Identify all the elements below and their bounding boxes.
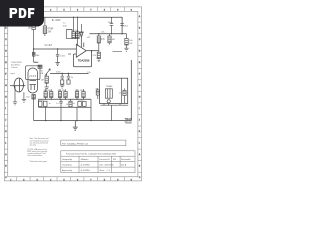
svg-text:1u: 1u	[63, 23, 66, 25]
resistor R13	[64, 89, 67, 99]
capacitor C3 electrolytic	[120, 24, 124, 26]
PDF badge	[0, 0, 44, 27]
resistor R12	[58, 89, 61, 99]
ground GND6	[13, 102, 17, 105]
svg-text:File: TubeAmp_PP2007.sch: File: TubeAmp_PP2007.sch	[62, 142, 89, 145]
svg-text:H: H	[139, 97, 141, 99]
transformer T1 windings	[105, 79, 121, 104]
decorative frame	[4, 7, 141, 181]
svg-text:Approved by: Approved by	[62, 169, 72, 172]
svg-text:Document N: Document N	[100, 158, 111, 161]
svg-text:I: I	[139, 108, 140, 110]
potentiometer VR1	[45, 69, 51, 90]
svg-text:Designed by: Designed by	[62, 159, 72, 161]
svg-text:+C: +C	[87, 37, 90, 39]
svg-text:H: H	[5, 97, 7, 99]
ground GND5	[97, 58, 101, 62]
svg-text:4: 4	[50, 179, 51, 181]
svg-text:K: K	[5, 131, 7, 133]
svg-text:L: L	[139, 143, 140, 145]
svg-text:R91: R91	[113, 159, 116, 161]
junction dots ground bus	[45, 120, 92, 121]
transformer T1 box	[100, 78, 128, 103]
svg-text:68k: 68k	[36, 55, 40, 57]
junction dots rail5	[45, 99, 84, 100]
svg-text:Control: Control	[11, 66, 18, 69]
arrow down symbol	[80, 24, 84, 37]
ground GND main	[73, 121, 78, 131]
capacitor C9	[59, 99, 62, 107]
svg-text:B: B	[139, 28, 141, 30]
svg-text:1 / 1: 1 / 1	[107, 170, 111, 172]
resistor R11	[50, 89, 53, 99]
resistor R2	[72, 17, 75, 38]
notes paragraph 2	[27, 148, 47, 157]
svg-text:0: 0	[131, 10, 132, 12]
capacitor C6	[60, 74, 64, 89]
resistor R8a grid	[32, 52, 35, 56]
svg-text:Revision A1: Revision A1	[121, 158, 131, 161]
svg-text:v1.0 B7/8/6: v1.0 B7/8/6	[81, 170, 90, 172]
title block file row	[61, 140, 126, 146]
wire rail5	[39, 98, 92, 100]
resistor R17	[96, 89, 99, 100]
svg-text:I: I	[5, 108, 6, 110]
resistor R6 input top	[32, 17, 35, 49]
svg-text:TRIAD: TRIAD	[106, 85, 113, 88]
wire input rail3	[34, 48, 77, 50]
svg-text:0: 0	[131, 179, 132, 181]
svg-text:Input: Input	[10, 72, 15, 75]
svg-text:22k: 22k	[101, 32, 105, 34]
capacitor C8 box	[39, 101, 48, 106]
enclosure box tube top	[26, 66, 41, 80]
resistor R3	[97, 34, 100, 51]
svg-text:100u: 100u	[123, 26, 129, 28]
svg-text:C2 4k7: C2 4k7	[45, 44, 53, 47]
resistor R18 zobel	[123, 89, 126, 104]
svg-text:5: 5	[64, 179, 65, 181]
capacitor C5 to ground	[56, 49, 59, 63]
svg-text:2W: 2W	[47, 30, 51, 33]
svg-text:12k: 12k	[87, 72, 91, 74]
svg-text:7: 7	[90, 179, 91, 181]
svg-text:TDA2030: TDA2030	[78, 58, 90, 62]
title block table	[61, 151, 135, 173]
wire op-amp output	[86, 50, 99, 52]
svg-text:J: J	[139, 120, 140, 122]
svg-text:Checked by: Checked by	[62, 164, 72, 166]
svg-text:G: G	[139, 85, 141, 87]
svg-text:100u: 100u	[108, 22, 114, 24]
svg-text:1M: 1M	[68, 54, 71, 56]
wire transformer drops	[104, 103, 120, 121]
resistor R4	[125, 34, 128, 49]
svg-text:1u 1u: 1u 1u	[78, 100, 83, 102]
resistor R8 plate	[38, 65, 42, 68]
svg-text:B: B	[5, 28, 7, 30]
svg-text:8: 8	[104, 179, 105, 181]
svg-text:1k: 1k	[71, 77, 74, 79]
svg-text:A: A	[139, 15, 141, 18]
svg-text:L: L	[5, 143, 6, 145]
wire stub right	[113, 51, 123, 53]
svg-text:1u: 1u	[56, 103, 58, 105]
svg-text:1: 1	[10, 179, 11, 181]
resistor R10	[44, 89, 47, 99]
svg-text:2W: 2W	[129, 43, 133, 45]
wire B+ right vertical	[130, 60, 132, 121]
svg-text:1u 1u: 1u 1u	[72, 30, 77, 32]
svg-text:G: G	[5, 85, 7, 87]
svg-text:use only.: use only.	[30, 145, 37, 147]
svg-text:7: 7	[90, 10, 91, 12]
svg-text:C: C	[139, 39, 141, 41]
svg-text:1u: 1u	[73, 103, 75, 105]
svg-text:C: C	[139, 177, 141, 179]
svg-text:B+ 325V: B+ 325V	[52, 20, 61, 22]
svg-text:10k: 10k	[129, 40, 133, 42]
wire ground bus bottom	[34, 120, 132, 122]
svg-text:B: B	[5, 166, 7, 168]
svg-text:47k: 47k	[101, 39, 106, 41]
svg-text:2: 2	[23, 179, 24, 181]
svg-text:1M: 1M	[28, 28, 31, 30]
svg-text:47k: 47k	[93, 55, 97, 57]
svg-text:E: E	[139, 62, 141, 64]
resistor R3b	[108, 34, 111, 45]
svg-text:1u: 1u	[49, 103, 51, 105]
svg-text:5: 5	[64, 10, 65, 12]
svg-text:4k7: 4k7	[112, 39, 116, 41]
svg-text:C: C	[5, 39, 7, 41]
svg-text:100n: 100n	[60, 56, 66, 58]
wire grid stub	[34, 49, 39, 62]
svg-text:D: D	[5, 51, 7, 53]
wire jack ground leads	[15, 86, 24, 102]
svg-text:C: C	[5, 177, 7, 179]
resistor R15	[82, 89, 85, 99]
svg-text:4: 4	[50, 10, 51, 12]
wire rail2	[89, 33, 126, 35]
svg-text:D: D	[139, 51, 141, 53]
svg-text:9: 9	[117, 179, 118, 181]
ground GND4 power pin	[79, 33, 83, 36]
op-amp U1	[76, 30, 86, 58]
notes paragraph 1	[30, 137, 49, 146]
wire feedback loop	[73, 51, 91, 67]
note text block TUB-DRIVE	[11, 62, 22, 69]
svg-text:Poweramp PowerTube No. C-200-2: Poweramp PowerTube No. C-200-2007 Series…	[66, 152, 116, 155]
svg-text:1M: 1M	[41, 80, 44, 82]
jack J1	[10, 78, 26, 92]
junction node A	[33, 48, 34, 49]
svg-text:J: J	[5, 120, 6, 122]
resistor R16	[69, 99, 72, 107]
svg-text:2k: 2k	[66, 104, 68, 106]
svg-text:K: K	[139, 131, 141, 133]
resistor R14	[75, 89, 78, 99]
junction dots rail2	[98, 33, 123, 34]
wire stubs to ground bus	[39, 99, 92, 120]
capacitor C2 electrolytic	[110, 17, 114, 34]
wire loop below cluster	[66, 30, 72, 39]
tube V1	[28, 68, 38, 93]
svg-text:400: 400	[63, 26, 67, 28]
wire rail6	[39, 106, 92, 108]
svg-text:F: F	[5, 74, 7, 76]
ground GND3	[55, 63, 59, 66]
svg-text:<Module>: <Module>	[81, 158, 89, 161]
svg-text:1k5: 1k5	[26, 97, 30, 99]
ground GND7	[22, 99, 26, 102]
svg-text:Size A: Size A	[121, 163, 127, 166]
resistor R1	[43, 17, 46, 36]
svg-text:6: 6	[77, 10, 78, 12]
svg-text:B: B	[139, 166, 141, 168]
capacitor C7	[67, 74, 70, 85]
ground GND2	[124, 48, 128, 51]
capacitor C10 boxes	[78, 102, 86, 107]
svg-text:2007/10/20: 2007/10/20	[105, 164, 114, 166]
terminal circle	[107, 100, 110, 103]
svg-text:Date: Date	[100, 163, 104, 166]
svg-text:*Selected resistor parts: *Selected resistor parts	[30, 160, 48, 163]
resistor R7 below output	[97, 51, 100, 58]
svg-text:3: 3	[37, 179, 38, 181]
svg-text:9: 9	[117, 10, 118, 12]
resistor R2b	[76, 17, 79, 38]
wire B+ top rail	[20, 17, 122, 34]
svg-text:A: A	[5, 153, 7, 156]
svg-text:at the selected time.: at the selected time.	[27, 154, 43, 157]
svg-text:T019S: T019S	[125, 121, 132, 124]
svg-text:v1.0 B7/8/6: v1.0 B7/8/6	[81, 164, 90, 166]
svg-text:8: 8	[104, 10, 105, 12]
resistor R9 cathode	[32, 95, 35, 121]
svg-text:Sheet: Sheet	[100, 169, 105, 172]
svg-text:A: A	[139, 153, 141, 156]
svg-text:E: E	[5, 62, 7, 64]
wire under transformer	[101, 104, 129, 106]
svg-text:F: F	[139, 74, 141, 76]
svg-text:6: 6	[77, 179, 78, 181]
wire rail4	[50, 73, 89, 75]
